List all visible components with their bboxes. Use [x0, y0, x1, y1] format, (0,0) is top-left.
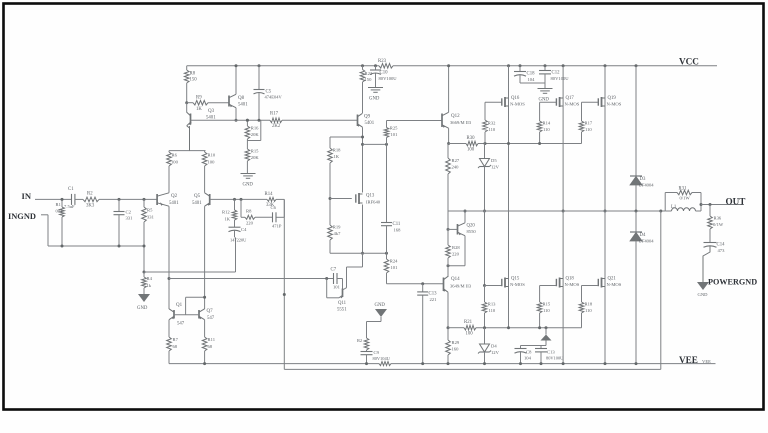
svg-text:VEE: VEE — [679, 355, 698, 365]
wire bias top — [484, 102, 487, 145]
q12 base line — [387, 120, 442, 122]
wire in2 — [99, 198, 157, 200]
wire c7-q11 — [337, 279, 343, 289]
svg-text:GND: GND — [539, 98, 550, 103]
svg-text:R18: R18 — [333, 148, 341, 153]
wire q3 em — [186, 103, 188, 113]
resistor R26 — [379, 362, 391, 366]
wire q8 em — [235, 64, 238, 94]
wire tail bar — [169, 126, 206, 151]
svg-text:R18: R18 — [585, 302, 593, 307]
svg-text:160: 160 — [452, 347, 460, 352]
svg-text:C8: C8 — [526, 350, 532, 355]
svg-text:004: 004 — [56, 209, 64, 214]
svg-text:3649/M II3: 3649/M II3 — [450, 284, 472, 289]
svg-text:20K: 20K — [251, 132, 260, 137]
svg-text:Q9: Q9 — [364, 115, 371, 120]
svg-text:R2: R2 — [357, 338, 362, 343]
svg-text:C1: C1 — [68, 187, 74, 192]
svg-text:C4: C4 — [241, 227, 247, 232]
svg-text:R24: R24 — [390, 259, 398, 264]
svg-text:101: 101 — [333, 285, 341, 290]
capacitor C10 — [370, 64, 397, 87]
svg-text:Q5: Q5 — [194, 194, 201, 199]
svg-text:547: 547 — [177, 322, 185, 327]
svg-text:R15: R15 — [251, 149, 259, 154]
transistor Q9 — [357, 113, 375, 127]
svg-text:R32: R32 — [488, 121, 496, 126]
svg-text:150: 150 — [190, 78, 198, 83]
resistor R14 feedback — [265, 192, 277, 208]
resistor R18 gate — [579, 286, 598, 328]
svg-text:R31: R31 — [679, 187, 688, 192]
inductor L1 — [665, 205, 701, 211]
svg-text:Q20: Q20 — [467, 224, 476, 229]
zener D5 — [478, 144, 500, 212]
svg-text:331: 331 — [126, 216, 134, 221]
resistor R30 — [466, 136, 478, 153]
base line q3-q9 — [191, 119, 358, 121]
wire r16 loop — [247, 120, 260, 140]
svg-text:R1: R1 — [56, 202, 62, 207]
resistor R36 — [708, 203, 724, 243]
svg-text:R17: R17 — [585, 121, 593, 126]
transistor Q2 — [157, 193, 179, 206]
svg-text:POWERGND: POWERGND — [708, 278, 757, 287]
svg-text:R36: R36 — [714, 216, 722, 221]
VEE rail — [169, 363, 716, 365]
INGND port — [8, 212, 48, 221]
resistor R33 snubber — [357, 338, 369, 350]
svg-text:5551: 5551 — [337, 308, 347, 313]
wire gnd leg — [143, 222, 146, 272]
resistor R19 — [328, 225, 341, 254]
svg-text:220: 220 — [452, 252, 460, 257]
transistor Q14 — [443, 276, 472, 292]
zener D4 lower — [478, 328, 500, 365]
gnd mid branch — [367, 303, 388, 338]
svg-text:R17: R17 — [270, 112, 279, 117]
feedback riser — [284, 210, 662, 370]
svg-text:Q13: Q13 — [366, 194, 375, 199]
svg-text:N-MOS: N-MOS — [565, 102, 580, 107]
resistor R12 — [222, 198, 237, 227]
q14 base line — [387, 283, 444, 285]
svg-text:101: 101 — [391, 265, 399, 270]
svg-text:R29: R29 — [452, 340, 460, 345]
svg-text:Q17: Q17 — [566, 96, 575, 101]
svg-text:IRF640: IRF640 — [366, 200, 381, 205]
resistor R1 — [56, 198, 65, 248]
svg-text:INGND: INGND — [8, 212, 36, 221]
svg-text:100: 100 — [171, 160, 179, 165]
VCC label — [679, 57, 699, 67]
resistor R24 — [384, 253, 398, 283]
svg-text:N-MOS: N-MOS — [510, 102, 525, 107]
svg-text:5401: 5401 — [169, 201, 179, 206]
svg-text:C7: C7 — [331, 268, 337, 273]
svg-text:1k: 1k — [147, 283, 152, 288]
svg-text:R23: R23 — [378, 59, 387, 64]
wire q14 em — [447, 292, 450, 329]
svg-text:Q1: Q1 — [176, 303, 183, 308]
resistor R32 — [483, 120, 496, 144]
svg-text:C10: C10 — [380, 71, 389, 76]
svg-text:221: 221 — [430, 297, 438, 302]
resistor R14 — [537, 102, 556, 145]
svg-text:R10: R10 — [208, 153, 216, 158]
svg-text:GND: GND — [369, 97, 380, 102]
svg-text:110: 110 — [543, 127, 550, 132]
resistor R18 — [328, 137, 341, 163]
svg-text:R11: R11 — [208, 337, 216, 342]
resistor R5 — [142, 198, 155, 222]
resistor R8 — [184, 66, 197, 103]
wire q5 coll — [204, 206, 206, 309]
svg-text:IN: IN — [22, 191, 32, 201]
svg-text:Q11: Q11 — [338, 301, 347, 306]
svg-text:3K3: 3K3 — [86, 204, 95, 209]
svg-text:GND: GND — [137, 306, 148, 311]
svg-text:Q8: Q8 — [238, 96, 245, 101]
resistor R15 — [245, 141, 259, 174]
resistor R2 — [83, 192, 99, 209]
capacitor C18 — [514, 64, 545, 83]
svg-text:GND: GND — [243, 183, 254, 188]
ground c10 — [368, 88, 383, 102]
svg-text:Q2: Q2 — [171, 194, 178, 199]
wire q20 coll — [464, 210, 467, 223]
q16 gate lead — [485, 101, 502, 103]
node R16 tap — [246, 119, 249, 122]
transistor Q7 — [199, 309, 215, 321]
svg-text:0/1W: 0/1W — [680, 196, 691, 201]
diode D3 — [630, 64, 654, 212]
svg-text:3669/M II3: 3669/M II3 — [450, 120, 472, 125]
svg-text:Q19: Q19 — [608, 96, 617, 101]
sense line — [168, 277, 334, 280]
svg-text:UF4004: UF4004 — [639, 183, 655, 188]
svg-text:C12: C12 — [552, 71, 561, 76]
transistor Q5 — [192, 193, 210, 206]
resistor R29 — [446, 328, 460, 365]
ground input — [137, 294, 150, 311]
transistor Q3 — [187, 109, 216, 126]
ground r15 — [241, 174, 256, 188]
svg-text:5401: 5401 — [365, 121, 375, 126]
resistor R7 — [167, 320, 179, 364]
resistor R22 — [360, 64, 373, 113]
svg-text:C13: C13 — [429, 292, 438, 297]
wire q2 coll — [168, 206, 170, 309]
svg-text:Q18: Q18 — [566, 277, 575, 282]
wire q20 em — [447, 236, 466, 268]
transistor Q20 — [458, 223, 477, 236]
capacitor C1 — [64, 187, 83, 209]
svg-text:OUT: OUT — [726, 197, 746, 207]
wire q9 coll — [362, 127, 364, 192]
wire lead-lag leg — [240, 198, 285, 217]
svg-text:C13: C13 — [547, 350, 555, 355]
resistor R16 — [245, 119, 259, 139]
svg-text:80V100U: 80V100U — [379, 76, 398, 81]
svg-text:474E04V: 474E04V — [265, 95, 283, 100]
wire r18-r19 — [329, 163, 331, 225]
POWERGND label — [708, 278, 757, 287]
mosfet Q13 — [356, 193, 381, 205]
svg-text:2K2: 2K2 — [272, 124, 281, 129]
svg-text:80V100U: 80V100U — [551, 76, 570, 81]
svg-text:N-MOS: N-MOS — [510, 282, 525, 287]
wire q12 coll — [447, 64, 450, 112]
svg-text:R8: R8 — [246, 209, 252, 214]
mosfet Q18 — [556, 211, 579, 365]
svg-text:104: 104 — [528, 77, 536, 82]
svg-text:R21: R21 — [464, 320, 473, 325]
wire q3 coll — [187, 126, 190, 151]
svg-text:C11: C11 — [393, 222, 401, 227]
svg-text:C14: C14 — [717, 243, 726, 248]
ground c12 — [538, 89, 553, 103]
wire feedback node — [210, 198, 285, 200]
mosfet Q17 — [556, 64, 579, 212]
bottom gate bus — [448, 327, 582, 329]
svg-text:Q12: Q12 — [451, 114, 460, 119]
resistor R13 — [482, 286, 496, 330]
capacitor C8 — [515, 349, 533, 366]
transistor Q11 — [337, 288, 347, 313]
svg-text:R8: R8 — [190, 72, 196, 77]
mosfet Q19 — [598, 64, 621, 212]
svg-text:68: 68 — [208, 344, 213, 349]
svg-text:C9: C9 — [374, 350, 380, 355]
q15 gate lead — [485, 285, 502, 287]
svg-text:12V: 12V — [491, 350, 500, 355]
svg-text:Q3: Q3 — [208, 109, 215, 114]
OUT port — [700, 197, 746, 207]
capacitor C9 — [361, 350, 391, 365]
svg-text:100: 100 — [466, 332, 474, 337]
resistor R23 — [378, 59, 393, 68]
svg-text:110: 110 — [489, 127, 496, 132]
svg-text:N-MOS: N-MOS — [565, 282, 580, 287]
resistor R28 — [446, 211, 461, 277]
svg-text:R28: R28 — [452, 245, 460, 250]
wire 144 link — [361, 143, 388, 146]
svg-text:147220U: 147220U — [230, 238, 247, 243]
svg-text:D5: D5 — [491, 158, 497, 163]
bus2 gnd tap — [541, 326, 552, 345]
powergnd arrow — [697, 282, 709, 297]
capacitor C6 — [271, 205, 282, 229]
svg-text:Q14: Q14 — [451, 277, 460, 282]
svg-text:5401: 5401 — [192, 201, 202, 206]
svg-text:547: 547 — [207, 316, 215, 321]
svg-text:110: 110 — [489, 308, 496, 313]
svg-text:N-MOS: N-MOS — [607, 102, 622, 107]
mosfet Q16 — [502, 64, 525, 329]
resistor R10 — [202, 151, 216, 193]
q13 gate lead — [329, 197, 352, 200]
svg-text:Q16: Q16 — [511, 96, 520, 101]
svg-text:L1: L1 — [671, 205, 677, 210]
svg-text:R12: R12 — [222, 210, 230, 215]
svg-text:R27: R27 — [452, 158, 460, 163]
svg-text:R2: R2 — [87, 192, 93, 197]
svg-text:VEE: VEE — [702, 359, 711, 364]
wire q8 coll — [235, 108, 238, 122]
svg-text:100: 100 — [208, 160, 216, 165]
svg-text:R6: R6 — [172, 153, 178, 158]
svg-text:R25: R25 — [390, 126, 398, 131]
svg-text:R15: R15 — [543, 302, 551, 307]
svg-text:R19: R19 — [333, 225, 341, 230]
svg-text:R4: R4 — [147, 276, 153, 281]
svg-text:UF4004: UF4004 — [639, 239, 655, 244]
diode D4 — [630, 211, 654, 365]
svg-text:5401: 5401 — [238, 103, 248, 108]
svg-text:20K: 20K — [251, 155, 260, 160]
wire ingnd — [48, 215, 144, 246]
node line y253 — [330, 252, 388, 255]
mosfet Q15 — [502, 277, 525, 288]
capacitor C4 — [229, 227, 248, 243]
capacitor C14 — [703, 243, 725, 283]
capacitor C12 — [539, 64, 569, 88]
transistor Q8 — [229, 94, 248, 107]
svg-text:80V100U: 80V100U — [546, 356, 564, 361]
svg-text:R30: R30 — [467, 136, 476, 141]
svg-text:471P: 471P — [272, 224, 282, 229]
capacitor C13 rail — [535, 349, 564, 366]
svg-text:D4: D4 — [640, 233, 646, 238]
transistor Q12 — [442, 112, 472, 128]
resistor R17 gate — [579, 102, 598, 143]
svg-text:110: 110 — [585, 308, 592, 313]
svg-text:7.5uF: 7.5uF — [64, 204, 75, 209]
IN port — [22, 191, 72, 201]
resistor R17 — [270, 112, 282, 130]
svg-text:Q7: Q7 — [207, 309, 214, 314]
svg-text:220: 220 — [246, 221, 254, 226]
svg-text:R16: R16 — [251, 126, 259, 131]
svg-text:110: 110 — [543, 308, 550, 313]
wire q12 em — [447, 128, 450, 145]
r18 top wire — [330, 136, 364, 139]
svg-text:Q15: Q15 — [511, 277, 520, 282]
svg-text:5401: 5401 — [206, 116, 216, 121]
svg-text:D3: D3 — [640, 177, 646, 182]
resistor R8b — [245, 209, 255, 226]
resistor R31 — [665, 187, 701, 212]
svg-text:1K: 1K — [225, 217, 231, 222]
cap bottom bar — [521, 346, 547, 349]
resistor R9 — [185, 96, 228, 113]
resistor R11 — [202, 320, 215, 365]
resistor R6 — [167, 151, 179, 193]
svg-text:104: 104 — [524, 356, 532, 361]
capacitor C2 — [114, 198, 134, 248]
svg-text:4k7: 4k7 — [334, 231, 342, 236]
mid output line — [448, 210, 665, 212]
capacitor C11 — [381, 144, 401, 253]
wire q1q7 base — [174, 296, 206, 315]
svg-text:101: 101 — [391, 132, 399, 137]
top gate bus — [449, 143, 582, 145]
svg-text:150: 150 — [365, 77, 373, 82]
svg-text:68: 68 — [173, 344, 178, 349]
feedback vertical — [283, 199, 286, 369]
svg-text:D4: D4 — [491, 344, 497, 349]
q11 emitter — [327, 279, 339, 298]
svg-text:473: 473 — [718, 248, 726, 253]
svg-text:R9: R9 — [196, 96, 202, 101]
VEE label — [679, 355, 711, 365]
q11 collector — [347, 253, 363, 287]
svg-text:12V: 12V — [491, 165, 500, 170]
svg-text:110: 110 — [585, 127, 592, 132]
svg-text:80V104U: 80V104U — [373, 356, 391, 361]
svg-text:8550: 8550 — [467, 229, 477, 234]
svg-text:R7: R7 — [173, 337, 179, 342]
svg-text:R14: R14 — [265, 192, 274, 197]
svg-text:331: 331 — [147, 215, 155, 220]
resistor R27 — [446, 144, 460, 212]
wire c4 return — [143, 237, 236, 273]
svg-text:N-MOS: N-MOS — [607, 282, 622, 287]
resistor R21 — [464, 320, 476, 337]
svg-text:R5: R5 — [147, 208, 153, 213]
mosfet Q21 — [598, 211, 621, 365]
svg-text:R14: R14 — [543, 121, 551, 126]
svg-text:C2: C2 — [126, 210, 132, 215]
wire q13 source — [361, 205, 364, 255]
svg-text:Q21: Q21 — [608, 277, 617, 282]
svg-text:1K: 1K — [196, 107, 202, 112]
wire bias mid — [483, 210, 486, 288]
capacitor C7 — [331, 268, 341, 290]
svg-text:GND: GND — [698, 292, 709, 297]
svg-text:R13: R13 — [488, 302, 496, 307]
resistor R15 gate — [537, 286, 556, 330]
capacitor C5 — [254, 64, 283, 122]
svg-text:GND: GND — [375, 303, 386, 308]
resistor R4 — [142, 272, 153, 294]
svg-text:C18: C18 — [527, 72, 536, 77]
svg-text:0/1W: 0/1W — [713, 222, 724, 227]
svg-text:168: 168 — [394, 228, 402, 233]
svg-text:C6: C6 — [271, 205, 277, 210]
svg-text:100: 100 — [467, 148, 475, 153]
capacitor C13 — [417, 282, 437, 365]
transistor Q1 — [169, 303, 185, 327]
svg-text:240: 240 — [452, 165, 460, 170]
svg-text:VCC: VCC — [679, 57, 699, 67]
VCC rail — [187, 65, 717, 67]
resistor R25 — [384, 121, 398, 145]
svg-text:1K: 1K — [334, 154, 340, 159]
